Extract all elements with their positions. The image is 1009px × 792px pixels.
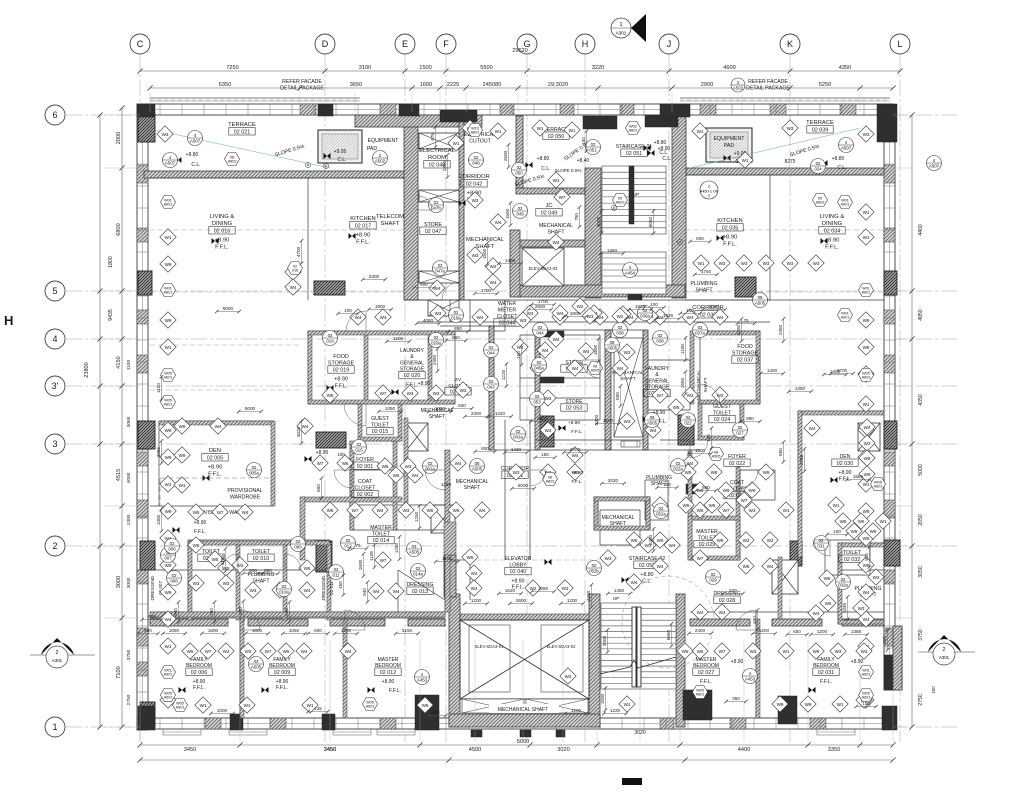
svg-text:02 030: 02 030 bbox=[837, 461, 854, 467]
column right 2 bbox=[884, 540, 900, 566]
svg-text:W9: W9 bbox=[179, 453, 186, 458]
svg-text:1500: 1500 bbox=[482, 248, 487, 259]
svg-text:W4: W4 bbox=[290, 285, 297, 290]
svg-text:4950: 4950 bbox=[918, 309, 924, 321]
svg-text:F.F.L.: F.F.L. bbox=[215, 245, 229, 251]
svg-text:ROOM: ROOM bbox=[428, 155, 446, 161]
svg-text:W3: W3 bbox=[858, 606, 865, 611]
svg-text:W3: W3 bbox=[741, 261, 748, 266]
svg-text:W5: W5 bbox=[743, 564, 750, 569]
svg-text:A601: A601 bbox=[862, 673, 871, 677]
svg-text:150: 150 bbox=[541, 452, 549, 457]
svg-text:JC: JC bbox=[545, 203, 552, 209]
stub b bbox=[520, 730, 531, 737]
svg-text:W7: W7 bbox=[741, 498, 748, 503]
kitchen peninsula block left bbox=[314, 281, 345, 295]
terrace parapet right (top) bbox=[680, 97, 890, 99]
svg-text:A453: A453 bbox=[745, 676, 756, 681]
svg-text:3000: 3000 bbox=[602, 635, 607, 646]
svg-text:W1: W1 bbox=[537, 126, 544, 131]
svg-text:W4: W4 bbox=[302, 424, 309, 429]
svg-text:+8.90: +8.90 bbox=[382, 679, 395, 685]
small internal dimensions bbox=[217, 311, 239, 313]
grid bubble 6 bbox=[45, 105, 65, 125]
svg-text:W4: W4 bbox=[863, 590, 870, 595]
svg-text:100: 100 bbox=[862, 701, 870, 706]
store divider dark bar bbox=[537, 377, 564, 383]
svg-text:051: 051 bbox=[589, 147, 597, 152]
structural grid lines bbox=[139, 55, 141, 742]
svg-text:1400: 1400 bbox=[767, 368, 778, 373]
svg-text:2200: 2200 bbox=[586, 590, 591, 601]
svg-text:W4: W4 bbox=[345, 649, 352, 654]
grid bubble 1 bbox=[45, 717, 65, 737]
svg-text:ELECTRICAL: ELECTRICAL bbox=[419, 148, 456, 154]
svg-text:W3: W3 bbox=[162, 132, 169, 137]
svg-text:2: 2 bbox=[52, 541, 57, 551]
svg-text:W3: W3 bbox=[717, 393, 724, 398]
svg-text:A601: A601 bbox=[164, 291, 173, 295]
svg-text:DINING: DINING bbox=[212, 221, 233, 227]
svg-text:02 015: 02 015 bbox=[372, 429, 389, 435]
grid bubble 2 bbox=[45, 536, 65, 556]
svg-text:W4: W4 bbox=[377, 508, 384, 513]
svg-text:MECHANICAL: MECHANICAL bbox=[466, 237, 505, 243]
svg-text:100: 100 bbox=[833, 529, 841, 534]
elevator shafts ELEV-SDA3-01 / ELEV-SDA3-02 bbox=[460, 620, 589, 699]
svg-text:1750: 1750 bbox=[701, 269, 712, 274]
svg-text:W1: W1 bbox=[244, 703, 251, 708]
top dimension row 1 bbox=[140, 70, 900, 72]
svg-text:02 021: 02 021 bbox=[234, 129, 251, 135]
svg-text:KITCHEN: KITCHEN bbox=[350, 216, 375, 222]
svg-text:W7: W7 bbox=[723, 508, 730, 513]
equipment pad left bbox=[318, 130, 362, 163]
svg-text:A601: A601 bbox=[841, 316, 850, 320]
svg-text:1100: 1100 bbox=[680, 344, 685, 354]
svg-text:A601: A601 bbox=[862, 376, 871, 380]
elev-3 left wall bbox=[510, 230, 520, 297]
svg-text:600: 600 bbox=[144, 628, 152, 633]
svg-text:W5: W5 bbox=[657, 538, 664, 543]
mechanical shaft flat X boxes bbox=[462, 699, 524, 713]
svg-text:02 039: 02 039 bbox=[812, 127, 829, 133]
svg-text:1650: 1650 bbox=[680, 377, 685, 388]
svg-text:047b: 047b bbox=[431, 205, 441, 210]
svg-text:016: 016 bbox=[292, 269, 298, 273]
svg-text:W3: W3 bbox=[787, 261, 794, 266]
svg-text:SLOPE 0.5%: SLOPE 0.5% bbox=[554, 168, 581, 173]
svg-text:043: 043 bbox=[487, 384, 495, 389]
svg-text:LAUNDRY: LAUNDRY bbox=[645, 366, 669, 372]
svg-text:SHAFT: SHAFT bbox=[610, 521, 626, 527]
svg-text:245080: 245080 bbox=[483, 82, 502, 88]
svg-text:+8.90: +8.90 bbox=[194, 520, 207, 526]
svg-text:W4: W4 bbox=[813, 611, 820, 616]
svg-text:1: 1 bbox=[620, 22, 623, 28]
svg-text:A301: A301 bbox=[52, 658, 63, 663]
svg-text:W4: W4 bbox=[572, 453, 579, 458]
svg-text:LAUNDRY: LAUNDRY bbox=[400, 348, 424, 354]
svg-text:2000: 2000 bbox=[116, 132, 122, 144]
svg-text:ELEVATOR: ELEVATOR bbox=[505, 556, 532, 562]
svg-text:W4: W4 bbox=[687, 315, 694, 320]
svg-text:ELEV-SDA3-02: ELEV-SDA3-02 bbox=[547, 644, 577, 649]
bottom core mid wall (elev/stair) bbox=[589, 594, 600, 727]
svg-text:3065: 3065 bbox=[126, 416, 132, 427]
mechanical shaft left X bbox=[406, 423, 428, 451]
svg-text:425: 425 bbox=[432, 710, 440, 715]
svg-text:600: 600 bbox=[615, 392, 620, 400]
svg-text:1105: 1105 bbox=[369, 551, 374, 561]
svg-text:W9: W9 bbox=[723, 488, 730, 493]
svg-text:4500: 4500 bbox=[469, 747, 481, 753]
svg-text:2: 2 bbox=[56, 650, 59, 656]
svg-text:A601: A601 bbox=[164, 696, 173, 700]
svg-text:1460: 1460 bbox=[614, 588, 625, 593]
block center bbox=[628, 290, 642, 300]
svg-text:1500: 1500 bbox=[505, 208, 510, 219]
svg-text:+8.90: +8.90 bbox=[571, 470, 583, 475]
svg-text:SHAFT: SHAFT bbox=[380, 221, 399, 227]
column center-right hatchblock bbox=[678, 415, 694, 445]
svg-text:W9: W9 bbox=[165, 509, 172, 514]
svg-text:650: 650 bbox=[882, 636, 887, 644]
svg-text:W3: W3 bbox=[767, 538, 774, 543]
svg-text:6050: 6050 bbox=[648, 216, 653, 227]
svg-text:6850: 6850 bbox=[666, 629, 671, 640]
svg-text:6: 6 bbox=[52, 110, 57, 120]
svg-text:STORAGE: STORAGE bbox=[400, 367, 425, 373]
provisional wardrobe dashed outline bbox=[160, 478, 271, 506]
svg-text:A505: A505 bbox=[755, 300, 766, 305]
svg-text:+8.80: +8.80 bbox=[654, 140, 667, 146]
svg-text:A502: A502 bbox=[375, 158, 386, 163]
svg-text:W5: W5 bbox=[327, 393, 334, 398]
svg-text:5000: 5000 bbox=[245, 406, 256, 411]
column top E bbox=[399, 104, 419, 116]
svg-text:F.F.L.: F.F.L. bbox=[572, 479, 583, 484]
svg-text:500: 500 bbox=[249, 568, 257, 573]
svg-text:600: 600 bbox=[148, 614, 156, 619]
grid bubble 3 bbox=[45, 434, 65, 454]
svg-text:+8.90: +8.90 bbox=[418, 381, 431, 387]
plumbing shaft dark block bbox=[686, 484, 698, 494]
window/wall tags (diamonds) bbox=[160, 229, 176, 245]
svg-text:+9.05: +9.05 bbox=[334, 149, 347, 155]
svg-text:W4: W4 bbox=[412, 473, 419, 478]
svg-text:A601: A601 bbox=[629, 129, 638, 133]
dashed layout lines bbox=[150, 229, 404, 231]
svg-text:W3: W3 bbox=[403, 508, 410, 513]
svg-text:150: 150 bbox=[516, 351, 521, 359]
top wall outer dashed line bbox=[150, 99, 360, 101]
grid bubble 5 bbox=[45, 281, 65, 301]
svg-text:W4: W4 bbox=[767, 564, 774, 569]
svg-text:W5: W5 bbox=[193, 510, 200, 515]
svg-text:W4: W4 bbox=[393, 589, 400, 594]
svg-text:29;3020: 29;3020 bbox=[548, 82, 568, 88]
svg-text:W5: W5 bbox=[467, 555, 474, 560]
svg-text:006: 006 bbox=[168, 546, 176, 551]
svg-text:TERRACE: TERRACE bbox=[806, 120, 834, 126]
svg-text:475: 475 bbox=[430, 133, 435, 141]
terrace-corridor wall center bbox=[516, 116, 523, 190]
svg-text:REFER FACADE: REFER FACADE bbox=[748, 79, 788, 85]
svg-text:1800: 1800 bbox=[208, 628, 219, 633]
svg-text:011: 011 bbox=[333, 572, 341, 577]
svg-text:W4: W4 bbox=[355, 315, 362, 320]
svg-text:2250: 2250 bbox=[442, 160, 447, 171]
svg-text:W4: W4 bbox=[165, 617, 172, 622]
svg-text:KITCHEN: KITCHEN bbox=[717, 218, 742, 224]
svg-text:W5: W5 bbox=[342, 461, 349, 466]
svg-text:F.F.L.: F.F.L. bbox=[700, 679, 712, 685]
svg-text:W3: W3 bbox=[472, 253, 479, 258]
svg-text:A601: A601 bbox=[862, 696, 871, 700]
svg-text:5250: 5250 bbox=[819, 82, 831, 88]
svg-text:W4: W4 bbox=[583, 349, 590, 354]
column top J bbox=[645, 115, 678, 127]
svg-text:W5: W5 bbox=[824, 576, 831, 581]
stub a bbox=[471, 730, 482, 737]
svg-text:018a: 018a bbox=[451, 315, 461, 320]
svg-text:940: 940 bbox=[173, 608, 178, 616]
svg-text:W1: W1 bbox=[200, 703, 207, 708]
svg-text:W4: W4 bbox=[215, 424, 222, 429]
drain symbols bbox=[305, 162, 310, 167]
svg-text:052a: 052a bbox=[656, 511, 666, 516]
svg-text:1500: 1500 bbox=[695, 448, 706, 453]
svg-text:W2: W2 bbox=[577, 304, 584, 309]
svg-text:W9: W9 bbox=[805, 702, 812, 707]
svg-text:1045: 1045 bbox=[842, 602, 847, 613]
svg-text:047a: 047a bbox=[435, 268, 445, 273]
svg-text:W3: W3 bbox=[562, 586, 569, 591]
svg-text:W7: W7 bbox=[657, 393, 664, 398]
svg-text:REFER FACADE: REFER FACADE bbox=[282, 79, 322, 85]
svg-text:02 016: 02 016 bbox=[214, 228, 231, 234]
svg-text:A505: A505 bbox=[647, 420, 658, 425]
svg-text:W3: W3 bbox=[460, 388, 467, 393]
svg-text:4150: 4150 bbox=[116, 356, 122, 368]
svg-text:02 037: 02 037 bbox=[737, 358, 754, 364]
svg-text:W3: W3 bbox=[861, 649, 868, 654]
T-wall horizontal top-center-left bbox=[355, 115, 482, 127]
svg-text:A507: A507 bbox=[190, 138, 201, 143]
svg-text:W3: W3 bbox=[193, 581, 200, 586]
svg-text:1200: 1200 bbox=[393, 336, 404, 341]
svg-text:022a: 022a bbox=[673, 466, 683, 471]
svg-text:02 040: 02 040 bbox=[510, 569, 527, 575]
view marker 1/A301 top bbox=[611, 14, 646, 42]
svg-text:02 053: 02 053 bbox=[566, 406, 583, 412]
svg-text:02 028: 02 028 bbox=[719, 598, 736, 604]
svg-text:2225: 2225 bbox=[447, 82, 459, 88]
svg-text:W4: W4 bbox=[697, 610, 704, 615]
svg-text:2800: 2800 bbox=[570, 311, 581, 316]
svg-text:600: 600 bbox=[696, 236, 704, 241]
svg-text:W3: W3 bbox=[624, 350, 631, 355]
svg-text:02 032: 02 032 bbox=[844, 557, 861, 563]
svg-text:W3: W3 bbox=[605, 556, 612, 561]
svg-text:4050: 4050 bbox=[423, 318, 434, 323]
svg-text:W9: W9 bbox=[763, 470, 770, 475]
mechanical shaft X room center bbox=[614, 338, 643, 437]
svg-text:+8.90: +8.90 bbox=[356, 233, 371, 239]
svg-text:100: 100 bbox=[581, 137, 586, 145]
svg-text:A601: A601 bbox=[366, 705, 375, 709]
svg-text:1600: 1600 bbox=[420, 82, 432, 88]
svg-text:W4: W4 bbox=[650, 428, 657, 433]
svg-text:425: 425 bbox=[314, 706, 322, 711]
svg-text:7250: 7250 bbox=[226, 65, 238, 71]
svg-text:4600: 4600 bbox=[723, 65, 735, 71]
bedroom separation wall left apartment bbox=[150, 619, 228, 626]
svg-text:W5: W5 bbox=[685, 470, 692, 475]
svg-text:WATER: WATER bbox=[498, 301, 516, 307]
svg-text:1100: 1100 bbox=[156, 383, 161, 393]
tag 2/A502 top right bbox=[731, 78, 745, 92]
circle tags bbox=[188, 131, 203, 146]
svg-text:+8.80: +8.80 bbox=[640, 572, 653, 578]
svg-text:W5: W5 bbox=[863, 563, 870, 568]
svg-text:W9: W9 bbox=[165, 455, 172, 460]
svg-text:4700: 4700 bbox=[296, 246, 301, 257]
svg-text:W4: W4 bbox=[304, 588, 311, 593]
svg-text:029: 029 bbox=[709, 577, 717, 582]
svg-text:W6: W6 bbox=[858, 519, 865, 524]
grid bubble D bbox=[315, 34, 335, 54]
staircase-01 right wall bbox=[672, 108, 686, 298]
svg-text:W3: W3 bbox=[223, 581, 230, 586]
svg-text:29620: 29620 bbox=[512, 48, 528, 54]
svg-text:02 011: 02 011 bbox=[329, 581, 334, 595]
svg-text:A507: A507 bbox=[841, 145, 852, 150]
svg-text:+8.90: +8.90 bbox=[193, 679, 206, 685]
svg-text:750: 750 bbox=[209, 608, 214, 616]
svg-text:W9: W9 bbox=[777, 702, 784, 707]
svg-text:W4: W4 bbox=[542, 348, 549, 353]
svg-text:PROVISIONAL: PROVISIONAL bbox=[227, 488, 262, 494]
svg-text:1: 1 bbox=[52, 722, 57, 732]
svg-text:W1: W1 bbox=[863, 235, 870, 240]
svg-text:044: 044 bbox=[487, 350, 495, 355]
svg-text:1350: 1350 bbox=[385, 406, 396, 411]
elevator lobby left wall bbox=[444, 555, 456, 597]
svg-text:4515: 4515 bbox=[116, 469, 122, 481]
svg-text:W1: W1 bbox=[553, 178, 560, 183]
top dimension row 2 bbox=[150, 87, 893, 89]
svg-text:1150: 1150 bbox=[441, 482, 452, 488]
svg-text:W5: W5 bbox=[393, 473, 400, 478]
svg-text:W1: W1 bbox=[863, 210, 870, 215]
svg-text:PLUMBING: PLUMBING bbox=[646, 475, 672, 481]
svg-text:A601: A601 bbox=[164, 673, 173, 677]
svg-text:4400: 4400 bbox=[918, 224, 924, 236]
svg-text:007: 007 bbox=[164, 555, 172, 560]
svg-text:+8.90: +8.90 bbox=[851, 659, 864, 665]
svg-text:1200: 1200 bbox=[571, 708, 582, 713]
svg-text:W4: W4 bbox=[809, 426, 816, 431]
svg-text:W7: W7 bbox=[205, 649, 212, 654]
svg-text:2765: 2765 bbox=[799, 454, 804, 465]
svg-text:W9: W9 bbox=[864, 472, 871, 477]
column left 2 bbox=[140, 541, 155, 570]
svg-text:2450: 2450 bbox=[736, 324, 741, 335]
svg-text:W6: W6 bbox=[711, 470, 718, 475]
svg-text:02 017: 02 017 bbox=[355, 223, 372, 229]
svg-text:4: 4 bbox=[52, 334, 57, 344]
svg-text:1500: 1500 bbox=[600, 693, 605, 704]
svg-text:A505: A505 bbox=[472, 466, 483, 471]
svg-text:W4: W4 bbox=[517, 345, 524, 350]
svg-text:038: 038 bbox=[616, 330, 624, 335]
svg-text:3350: 3350 bbox=[828, 747, 840, 753]
svg-text:1500: 1500 bbox=[419, 65, 431, 71]
svg-text:02 031: 02 031 bbox=[818, 670, 835, 676]
svg-text:H: H bbox=[4, 313, 13, 328]
svg-text:W4: W4 bbox=[373, 589, 380, 594]
svg-text:MASTER: MASTER bbox=[378, 657, 399, 663]
svg-text:W4: W4 bbox=[864, 425, 871, 430]
svg-text:1050: 1050 bbox=[289, 628, 300, 633]
svg-text:GUEST: GUEST bbox=[371, 416, 390, 422]
svg-text:W3: W3 bbox=[864, 441, 871, 446]
svg-text:W6: W6 bbox=[683, 503, 690, 508]
column bottom D bbox=[322, 714, 335, 730]
svg-text:GUEST: GUEST bbox=[713, 404, 732, 410]
column left C6 bbox=[138, 114, 155, 142]
svg-text:2450: 2450 bbox=[778, 324, 783, 335]
bottom core bottom band bbox=[449, 714, 600, 727]
svg-text:650: 650 bbox=[778, 448, 783, 456]
svg-text:100: 100 bbox=[344, 308, 352, 313]
svg-text:053: 053 bbox=[533, 399, 541, 404]
column top J2 bbox=[660, 104, 690, 117]
svg-text:1250: 1250 bbox=[394, 542, 399, 553]
terrace bottom wall right bbox=[686, 168, 884, 175]
svg-text:050: 050 bbox=[515, 170, 523, 175]
svg-text:1250: 1250 bbox=[414, 511, 419, 522]
svg-text:1135: 1135 bbox=[220, 555, 225, 565]
svg-text:W3: W3 bbox=[863, 132, 870, 137]
svg-text:1900: 1900 bbox=[375, 304, 386, 309]
grid bubble C bbox=[130, 34, 150, 54]
staircase-01 left wall bbox=[585, 168, 601, 298]
svg-text:W2: W2 bbox=[490, 264, 497, 269]
svg-text:F.F.L.: F.F.L. bbox=[194, 529, 206, 535]
svg-text:3': 3' bbox=[52, 381, 59, 391]
svg-text:A507: A507 bbox=[165, 160, 176, 165]
svg-text:2050: 2050 bbox=[918, 514, 924, 526]
plumbing shaft right X bbox=[858, 423, 880, 451]
right dimension column bbox=[911, 115, 913, 727]
svg-text:F.F.L.: F.F.L. bbox=[276, 685, 288, 691]
svg-text:W4: W4 bbox=[455, 461, 462, 466]
svg-text:75: 75 bbox=[743, 318, 749, 323]
svg-text:1200: 1200 bbox=[471, 598, 482, 603]
svg-text:02 022: 02 022 bbox=[729, 461, 746, 467]
svg-text:W1: W1 bbox=[165, 345, 172, 350]
svg-text:F.F.L.: F.F.L. bbox=[820, 679, 832, 685]
svg-text:W5: W5 bbox=[631, 538, 638, 543]
svg-text:W3: W3 bbox=[835, 649, 842, 654]
svg-text:W2: W2 bbox=[617, 314, 624, 319]
svg-text:W5: W5 bbox=[212, 557, 219, 562]
svg-text:1460: 1460 bbox=[607, 248, 618, 253]
svg-text:W4: W4 bbox=[553, 337, 560, 342]
